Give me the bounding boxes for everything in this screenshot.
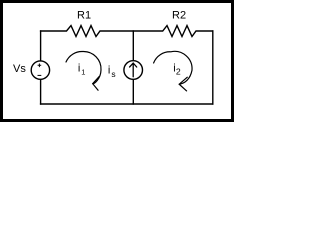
wire top with R1 and R2: [41, 26, 213, 37]
svg-text:i: i: [78, 63, 80, 75]
svg-text:Vs: Vs: [13, 63, 26, 75]
svg-text:i: i: [108, 65, 110, 77]
svg-text:2: 2: [176, 67, 181, 77]
svg-text:R1: R1: [77, 10, 91, 22]
current source circle: [124, 61, 143, 80]
Vs minus sign: [38, 74, 42, 76]
mesh current arrow i2: [154, 51, 192, 91]
wire bottom: [41, 103, 213, 105]
svg-text:s: s: [111, 69, 115, 79]
svg-text:R2: R2: [172, 10, 186, 22]
current source arrow: [130, 63, 137, 77]
Vs plus sign: [38, 64, 42, 68]
wire middle bottom (current source to bottom wire): [132, 80, 134, 104]
wire right: [212, 31, 214, 104]
wire middle top (top wire to current source): [132, 31, 134, 60]
wire left top (corner to Vs top): [40, 31, 42, 60]
voltage source Vs circle: [31, 61, 49, 79]
svg-text:1: 1: [81, 68, 85, 77]
wire left bottom (Vs bottom to corner): [40, 80, 42, 104]
mesh current arrow i1: [66, 51, 101, 90]
border frame: [2, 2, 233, 121]
